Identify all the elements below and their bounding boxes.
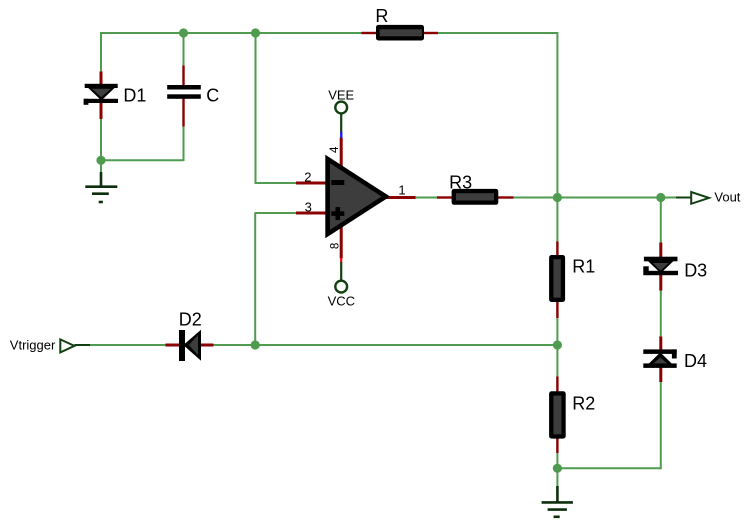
- svg-text:R1: R1: [572, 257, 595, 277]
- svg-text:D4: D4: [684, 351, 707, 371]
- svg-text:R2: R2: [572, 393, 595, 413]
- junction output net / D3 branch: [656, 193, 665, 202]
- svg-text:4: 4: [329, 146, 341, 153]
- zener diode D3: [643, 243, 678, 291]
- wire horizontal y=160 C to ground junction: [101, 159, 184, 161]
- terminal Vout: [676, 192, 709, 204]
- svg-text:VCC: VCC: [328, 294, 355, 309]
- wire vertical x=101 from top net to D1: [100, 32, 102, 84]
- junction D1-C-ground: [96, 156, 105, 165]
- svg-text:2: 2: [304, 169, 311, 184]
- wire ground stub below junction: [100, 160, 102, 173]
- junction R1 R2 trigger: [553, 340, 562, 349]
- junction output net / feedback: [553, 193, 562, 202]
- svg-text:3: 3: [305, 200, 312, 215]
- wire vertical x=557.5 right side of top net: [556, 32, 558, 198]
- capacitor C: [167, 66, 201, 127]
- svg-text:Vout: Vout: [714, 190, 740, 205]
- zener diode D4: [643, 337, 676, 383]
- ground (bottom): [542, 486, 573, 517]
- junction bottom ground: [553, 464, 562, 473]
- diode D2: [166, 330, 214, 361]
- wire top horizontal net: [101, 32, 558, 34]
- svg-text:D3: D3: [684, 261, 707, 281]
- resistor R1: [549, 242, 565, 319]
- resistor R2: [549, 377, 566, 454]
- diode D1: [84, 72, 118, 120]
- wire trigger horizontal y=345: [89, 344, 558, 346]
- svg-text:1: 1: [398, 182, 405, 197]
- ground (left): [85, 172, 117, 202]
- power terminal VEE: [335, 102, 347, 138]
- wire horizontal into op-amp pin 3: [255, 212, 301, 214]
- resistor R: [362, 25, 439, 41]
- wire output net y=197.5: [410, 197, 678, 199]
- junction top net / C: [179, 28, 188, 37]
- junction trigger / pin3 branch: [251, 340, 260, 349]
- wire C bottom to horizontal: [183, 98, 185, 161]
- svg-text:D1: D1: [123, 85, 146, 105]
- wire vertical x=255 pin3 down to trigger net: [254, 213, 256, 346]
- wire horizontal into op-amp pin 2: [255, 182, 301, 184]
- wire vertical x=255.5 from top net down to pin2: [255, 32, 257, 183]
- op-amp U1: [296, 138, 416, 259]
- wire vertical x=183.5 from top net to C: [183, 32, 185, 86]
- wire bottom horizontal y=468.3: [557, 467, 660, 469]
- svg-text:8: 8: [330, 243, 342, 249]
- wire ground stub below bottom junction: [556, 467, 558, 488]
- svg-text:R3: R3: [449, 173, 472, 193]
- svg-text:R: R: [375, 6, 388, 26]
- svg-text:Vtrigger: Vtrigger: [10, 337, 56, 352]
- junction top net / pin2 branch: [251, 28, 260, 37]
- power terminal VCC: [335, 258, 347, 292]
- resistor R3: [437, 189, 514, 205]
- terminal Vtrigger: [60, 339, 90, 352]
- svg-text:D2: D2: [179, 310, 202, 330]
- svg-text:VEE: VEE: [328, 87, 354, 102]
- wire vertical x=660.8 D3 D4 branch: [660, 198, 662, 470]
- svg-text:C: C: [206, 86, 219, 106]
- wire D1 bottom to ground junction: [100, 102, 102, 161]
- wire vertical x=557.4 through R1 R2: [556, 198, 558, 469]
